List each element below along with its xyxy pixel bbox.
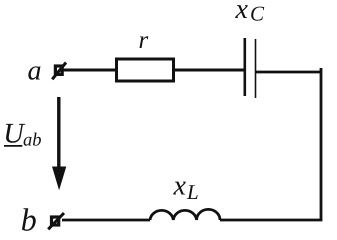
svg-text:a: a bbox=[28, 56, 42, 87]
svg-text:L: L bbox=[186, 180, 199, 204]
svg-text:r: r bbox=[139, 27, 149, 54]
svg-text:x: x bbox=[235, 0, 249, 25]
svg-text:x: x bbox=[173, 171, 187, 202]
svg-text:C: C bbox=[250, 2, 265, 26]
svg-text:ab: ab bbox=[23, 130, 42, 150]
svg-text:b: b bbox=[21, 202, 37, 238]
